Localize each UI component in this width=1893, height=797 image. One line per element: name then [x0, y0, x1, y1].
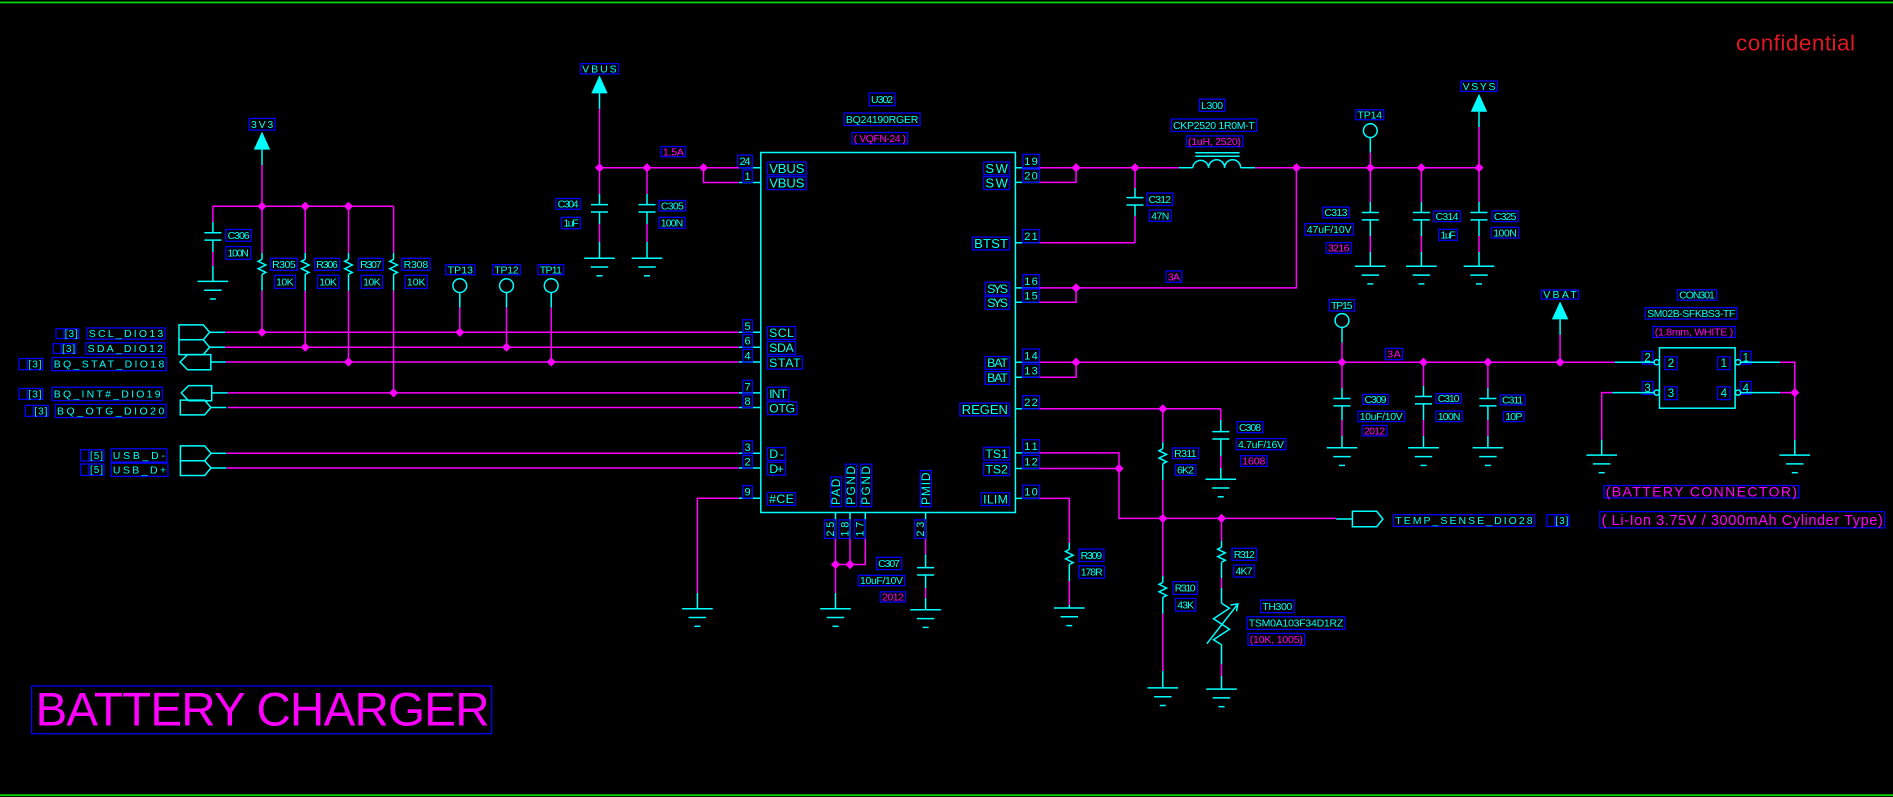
capacitor C310 [1415, 362, 1432, 448]
wire TH300 to ground [1221, 645, 1223, 664]
capacitor C311 [1479, 362, 1496, 448]
svg-text:[5]: [5] [90, 465, 103, 476]
pin name INT [767, 387, 789, 401]
thermistor TH300 [1207, 603, 1238, 645]
wire VBUS to pin 1 [704, 168, 739, 183]
C313 package label 3216 [1326, 243, 1351, 255]
TP12 ref label [493, 264, 521, 276]
svg-text:R307: R307 [360, 259, 382, 271]
svg-text:2: 2 [1668, 358, 1674, 370]
top green border line [0, 1, 1893, 3]
pin number 3 [743, 441, 753, 454]
bottom green border line [0, 794, 1893, 796]
pin name SW [984, 161, 1010, 176]
svg-text:100N: 100N [661, 217, 683, 229]
svg-text:47N: 47N [1151, 210, 1169, 222]
wire 3V3 top bus [213, 205, 394, 207]
pin number 11 [1023, 440, 1040, 453]
svg-text:R308: R308 [404, 259, 429, 271]
svg-text:[3]: [3] [1555, 516, 1568, 527]
ground under TH300 [1206, 689, 1237, 707]
R307 ref label [358, 258, 383, 271]
C325 ref label [1492, 211, 1518, 223]
wire pin3 ground lead [1601, 440, 1603, 455]
svg-text:SYS: SYS [987, 296, 1008, 310]
svg-text:C308: C308 [1239, 422, 1261, 434]
svg-text:#CE: #CE [769, 492, 794, 506]
wire pin1 branch [1780, 362, 1795, 392]
pin number 1 [743, 170, 753, 183]
net name SDA_DIO12 [86, 343, 165, 355]
svg-text:confidential: confidential [1736, 31, 1855, 56]
ground under C325 [1464, 266, 1495, 284]
flag SCL_DIO13 [179, 325, 225, 340]
CON301 part label SM02B-SFKBS3-TF [1645, 308, 1737, 320]
svg-text:13: 13 [1024, 366, 1037, 378]
svg-text:3A: 3A [1168, 271, 1180, 283]
test point TP11 [544, 279, 558, 362]
svg-text:1608: 1608 [1242, 456, 1265, 468]
wire pin3 to ground [1602, 393, 1613, 440]
wire SW net [1040, 167, 1179, 169]
capacitor C306 [204, 206, 221, 281]
junction REGEN/R311 [1158, 404, 1167, 413]
resistor R311 [1159, 409, 1167, 519]
svg-text:1.5A: 1.5A [663, 146, 684, 158]
svg-text:3216: 3216 [1328, 243, 1350, 255]
capacitor C325 [1471, 168, 1488, 267]
svg-text:R306: R306 [316, 259, 338, 271]
svg-text:VBUS: VBUS [769, 161, 805, 176]
wire USB D+ net [227, 467, 739, 469]
net name BQ_INT#_DIO19 [52, 387, 162, 400]
junction 3V3/R306 [301, 202, 310, 211]
L300 part label CKP2520 1R0M-T [1171, 119, 1256, 132]
svg-text:SCL: SCL [769, 326, 794, 340]
junction BAT/TP15/C309 [1337, 358, 1346, 367]
svg-text:10uF/10V: 10uF/10V [1360, 411, 1403, 423]
pin name SYS [985, 282, 1009, 296]
wire BAT net [1040, 361, 1615, 363]
svg-text:10K: 10K [363, 277, 381, 289]
pin stub pin 11 [1015, 452, 1039, 454]
svg-text:BQ24190RGER: BQ24190RGER [846, 114, 919, 126]
junction SDA/TP12 [502, 343, 511, 352]
pin stub pin 2 [739, 467, 761, 469]
ground under C307 [910, 610, 941, 628]
svg-text:16: 16 [1024, 276, 1037, 288]
TH300 value label (10K, 1005) [1248, 634, 1305, 647]
C304 ref label [556, 199, 581, 211]
power net label VBAT [1542, 289, 1579, 301]
C314 ref label [1434, 211, 1461, 223]
pin name TS1 [984, 447, 1010, 461]
flag USB_D- [180, 446, 226, 461]
pin number 4 [743, 349, 753, 362]
pin stub pin 20 [1015, 181, 1039, 183]
C308 package label 1608 [1241, 456, 1268, 468]
R310 ref label [1173, 582, 1197, 595]
pin name BAT [985, 371, 1009, 385]
svg-text:5: 5 [744, 321, 750, 333]
svg-text:TP12: TP12 [494, 264, 518, 276]
wire R310 to ground [1162, 615, 1164, 671]
svg-text:[5]: [5] [90, 451, 103, 462]
svg-text:(1.8mm, WHITE ): (1.8mm, WHITE ) [1655, 327, 1734, 339]
test point TP15 [1335, 314, 1349, 363]
C305 ref label [659, 200, 686, 212]
junction VSYS branch to SYS [1292, 163, 1301, 172]
R309 ref label [1079, 549, 1104, 562]
TP13 ref label [446, 264, 475, 276]
svg-text:C314: C314 [1436, 211, 1459, 223]
junction TEMP/R311-R310 [1158, 514, 1167, 523]
TH300 part label TSM0A103F34D1RZ [1247, 617, 1345, 630]
capacitor C313 [1362, 168, 1379, 267]
wire TS to TEMP_SENSE [1119, 469, 1336, 519]
wire pin17 PGND down [836, 539, 866, 565]
C312 ref label [1147, 193, 1173, 206]
svg-text:C304: C304 [558, 199, 579, 211]
svg-text:[3]: [3] [65, 329, 78, 340]
svg-text:1: 1 [744, 171, 750, 183]
current label 3A BAT [1385, 348, 1402, 360]
C308 ref label [1237, 422, 1263, 434]
title BATTERY CHARGER [32, 684, 492, 737]
power net label 3V3 [249, 118, 275, 130]
svg-text:R310: R310 [1175, 583, 1196, 595]
C312 value label 47N [1150, 210, 1172, 222]
svg-text:D+: D+ [769, 462, 784, 476]
CON301 inner pin 3 [1665, 387, 1677, 400]
svg-text:100N: 100N [1438, 411, 1461, 423]
CON301 note label (1.8mm, WHITE) [1653, 327, 1735, 339]
pin name BAT [985, 356, 1009, 370]
svg-text:178R: 178R [1081, 567, 1103, 579]
pin stub pin 6 [739, 346, 761, 348]
page ref [3] for SCL [56, 329, 79, 340]
R309 value label 178R [1079, 566, 1105, 579]
note (Li-Ion 3.75V / 3000mAh Cylinder Type) [1600, 512, 1885, 529]
pin number 22 [1023, 396, 1040, 409]
svg-text:SW: SW [985, 161, 1008, 176]
C313 value label 47uF/10V [1305, 224, 1354, 236]
wire pin3 stub [1612, 392, 1654, 394]
ground under C309 [1327, 448, 1358, 466]
junction SDA/R306 [301, 343, 310, 352]
svg-text:43K: 43K [1177, 599, 1194, 611]
R311 ref label [1172, 448, 1198, 460]
pin number 10 [1023, 485, 1040, 498]
svg-text:TEMP_SENSE_DIO28: TEMP_SENSE_DIO28 [1395, 515, 1532, 527]
wire PGND ground lead [835, 593, 837, 609]
svg-text:R309: R309 [1081, 550, 1103, 562]
junction VBUS/C304 [595, 163, 604, 172]
pin name SYS [985, 296, 1009, 310]
pin name VBUS [767, 176, 806, 191]
pin name REGEN [960, 402, 1010, 417]
pin stub pin 10 [1015, 497, 1039, 499]
test point TP13 [453, 279, 467, 333]
wire BAT into pin2 stub [1615, 361, 1654, 363]
flag BQ_STAT_DIO18 [180, 355, 226, 370]
R312 ref label [1232, 548, 1257, 561]
R305 value label 10K [274, 275, 295, 288]
junction SYS pins [1072, 283, 1081, 292]
wire R309 ground lead [1068, 605, 1070, 608]
svg-text:10K: 10K [276, 277, 294, 289]
svg-text:3A: 3A [1387, 349, 1401, 361]
svg-text:VBUS: VBUS [769, 176, 805, 191]
TH300 ref label [1261, 600, 1294, 613]
pin number 13 [1023, 364, 1040, 377]
C310 ref label [1436, 393, 1461, 405]
C307 ref label [876, 557, 901, 570]
svg-text:[3]: [3] [29, 360, 42, 371]
svg-text:3: 3 [744, 442, 750, 454]
CON301 pin circle 2 [1654, 360, 1659, 365]
pin number 12 [1023, 455, 1040, 468]
R305 ref label [270, 258, 297, 271]
junction TS1/TS2 [1114, 464, 1123, 473]
junction BAT/VBAT [1556, 358, 1565, 367]
svg-text:C312: C312 [1149, 194, 1172, 206]
svg-text:2012: 2012 [1364, 425, 1385, 437]
pin name PGND [844, 464, 858, 507]
TP11 ref label [538, 264, 564, 276]
net name SCL_DIO13 [87, 328, 165, 340]
wire VSYS net after L300 [1255, 167, 1479, 169]
CON301 ref label [1677, 290, 1716, 302]
capacitor C307 [917, 539, 934, 610]
svg-text:D-: D- [769, 447, 784, 461]
R311 value label 6K2 [1175, 465, 1196, 477]
wire pin4 stub [1741, 392, 1781, 394]
wire pin18 PGND down [849, 539, 851, 565]
ground under R310 [1148, 688, 1179, 706]
pin stub pin 13 [1015, 376, 1039, 378]
CON301 inner pin 4 [1718, 387, 1730, 400]
power symbol 3V3 arrow [254, 132, 270, 207]
pin stub pin 8 [739, 407, 761, 409]
svg-text:(10K, 1005): (10K, 1005) [1250, 634, 1303, 646]
C309 value label 10uF/10V [1358, 411, 1405, 423]
pin number 18 [839, 520, 851, 539]
ground under C306 [198, 281, 229, 299]
junction PGND 18 [845, 560, 854, 569]
R308 value label 10K [405, 275, 427, 288]
pin name PGND [859, 464, 873, 507]
power net label VSYS [1461, 81, 1497, 93]
pin number 17 [854, 520, 866, 539]
svg-text:[3]: [3] [34, 406, 47, 417]
ground under R309 [1054, 608, 1085, 626]
svg-text:TP13: TP13 [448, 264, 473, 276]
pin number 21 [1023, 230, 1040, 243]
wire pin4 branch [1780, 393, 1795, 440]
wire ILIM net [1040, 498, 1070, 535]
svg-text:BAT: BAT [987, 371, 1008, 385]
pin number 24 [738, 155, 753, 168]
CON301 inner pin 1 [1718, 357, 1730, 370]
svg-text:24: 24 [739, 156, 750, 168]
wire TS2 net [1040, 468, 1120, 470]
page ref [3] for BQ_STAT [19, 359, 43, 371]
svg-text:REGEN: REGEN [962, 402, 1008, 417]
inductor L300 [1179, 153, 1255, 168]
pin number 23 [915, 520, 927, 539]
C309 ref label [1363, 394, 1389, 406]
svg-text:1uF: 1uF [1441, 230, 1456, 242]
wire C312 to BTST [1040, 242, 1136, 244]
connector CON301 body [1660, 348, 1736, 408]
svg-text:SDA: SDA [769, 341, 794, 355]
pin name PAD [829, 477, 843, 507]
svg-text:R312: R312 [1234, 549, 1255, 561]
pin stub pin 9 [739, 497, 761, 499]
ground under CON301 pin3 [1586, 455, 1617, 473]
page ref [3] for SDA [53, 344, 76, 355]
svg-text:( VQFN-24 ): ( VQFN-24 ) [854, 133, 906, 145]
svg-text:C313: C313 [1324, 207, 1347, 219]
wire REGEN net [1040, 408, 1221, 410]
svg-text:R311: R311 [1174, 448, 1197, 460]
svg-text:SCL_DIO13: SCL_DIO13 [89, 328, 164, 340]
pin stub pin 19 [1015, 167, 1039, 169]
pin stub pin 22 [1015, 408, 1039, 410]
svg-text:4: 4 [744, 351, 750, 363]
pin stub pin 7 [739, 392, 761, 394]
junction STAT/TP11 [547, 357, 556, 366]
svg-text:19: 19 [1024, 156, 1037, 168]
pin name SW [984, 176, 1010, 191]
ground under C304 [584, 258, 615, 276]
svg-text:OTG: OTG [769, 401, 795, 415]
svg-text:15: 15 [1024, 290, 1037, 302]
power symbol VBAT arrow [1552, 301, 1568, 362]
R312 value label 4K7 [1234, 565, 1255, 578]
junction STAT/R307 [344, 357, 353, 366]
pin stub pin 16 [1015, 287, 1039, 289]
svg-text:7: 7 [744, 381, 750, 393]
page ref [3] for BQ_OTG [25, 405, 48, 417]
svg-text:11: 11 [1024, 441, 1037, 453]
net name USB_D+ [111, 463, 168, 476]
svg-text:10K: 10K [319, 277, 337, 289]
pin name SDA [767, 341, 795, 355]
junction SCL/TP13 [455, 328, 464, 337]
pin stub pin 24 [739, 167, 761, 169]
svg-text:SM02B-SFKBS3-TF: SM02B-SFKBS3-TF [1647, 308, 1735, 320]
svg-text:TP11: TP11 [540, 264, 562, 276]
svg-text:C325: C325 [1494, 211, 1517, 223]
TP14 ref label [1356, 109, 1384, 121]
svg-text:C311: C311 [1502, 395, 1523, 407]
C311 value label 10P [1503, 411, 1524, 423]
pin number 6 [743, 335, 753, 348]
svg-text:CKP2520 1R0M-T: CKP2520 1R0M-T [1173, 120, 1255, 132]
svg-text:INT: INT [769, 387, 787, 401]
ground under C305 [632, 258, 663, 276]
svg-text:3V3: 3V3 [251, 119, 273, 131]
wire OTG net [228, 407, 739, 409]
svg-text:100N: 100N [228, 248, 249, 260]
junction SW pins [1072, 163, 1081, 172]
svg-text:( Li-Ion 3.75V / 3000mAh Cylin: ( Li-Ion 3.75V / 3000mAh Cylinder Type) [1602, 513, 1883, 529]
ground under C314 [1406, 266, 1437, 284]
svg-text:SDA_DIO12: SDA_DIO12 [88, 343, 163, 355]
C313 ref label [1323, 207, 1350, 219]
pin stub pin 18 [849, 513, 851, 539]
power symbol VSYS arrow [1471, 94, 1487, 168]
capacitor C314 [1413, 168, 1430, 267]
page ref [5] for USB_D- [81, 450, 104, 462]
C307 package label 2012 [880, 592, 905, 604]
junction BAT/C310 [1419, 358, 1428, 367]
svg-text:10uF/10V: 10uF/10V [860, 575, 903, 587]
flag SDA_DIO12 [179, 340, 225, 355]
ground under C310 [1408, 448, 1439, 466]
wire SDA net [225, 346, 739, 348]
R307 value label 10K [361, 275, 382, 288]
resistor R305 [258, 206, 266, 332]
pin stub pin 3 [739, 452, 761, 454]
wire pin1 stub [1741, 361, 1781, 363]
svg-text:PMID: PMID [919, 472, 933, 505]
wire BAT pin13 up [1040, 362, 1077, 377]
capacitor C312 [1127, 168, 1144, 243]
resistor R309 [1066, 535, 1074, 581]
ground under C313 [1355, 266, 1386, 284]
L300 ref label [1199, 99, 1225, 112]
junction BAT pins [1072, 358, 1081, 367]
wire STAT net [226, 361, 739, 363]
R310 value label 43K [1176, 598, 1196, 611]
svg-text:4.7uF/16V: 4.7uF/16V [1238, 439, 1284, 451]
wire SCL net [225, 331, 739, 333]
svg-text:ILIM: ILIM [983, 492, 1008, 506]
TP15 ref label [1329, 300, 1354, 312]
U302 package label (VQFN-24) [852, 133, 908, 145]
svg-text:BQ_STAT_DIO18: BQ_STAT_DIO18 [54, 359, 165, 371]
CON301 outer pin number 4 [1740, 381, 1751, 394]
svg-text:SW: SW [985, 176, 1008, 191]
junction pin1/pin4 [1790, 388, 1799, 397]
pin name OTG [767, 401, 796, 415]
resistor R307 [345, 206, 353, 362]
svg-text:TP15: TP15 [1331, 300, 1353, 312]
pin name STAT [767, 356, 802, 370]
svg-text:R305: R305 [272, 259, 296, 271]
note (BATTERY CONNECTOR) [1604, 484, 1799, 500]
pin name PMID [919, 471, 933, 507]
CON301 pin circle 4 [1735, 390, 1740, 395]
junction VSYS/C314 [1417, 163, 1426, 172]
svg-text:100N: 100N [1493, 227, 1517, 239]
page ref [5] for USB_D+ [81, 464, 104, 476]
CON301 pin circle 1 [1735, 360, 1740, 365]
capacitor C308 [1212, 409, 1229, 479]
pin number 2 [743, 455, 753, 468]
svg-text:1: 1 [1721, 358, 1727, 370]
resistor R306 [301, 206, 309, 347]
page ref [3] for BQ_INT# [19, 389, 43, 401]
CON301 pin circle 3 [1654, 390, 1659, 395]
power net label VBUS [580, 63, 618, 75]
pin number 19 [1023, 155, 1040, 168]
pin stub pin 4 [739, 361, 761, 363]
junction TEMP/R312 [1217, 514, 1226, 523]
